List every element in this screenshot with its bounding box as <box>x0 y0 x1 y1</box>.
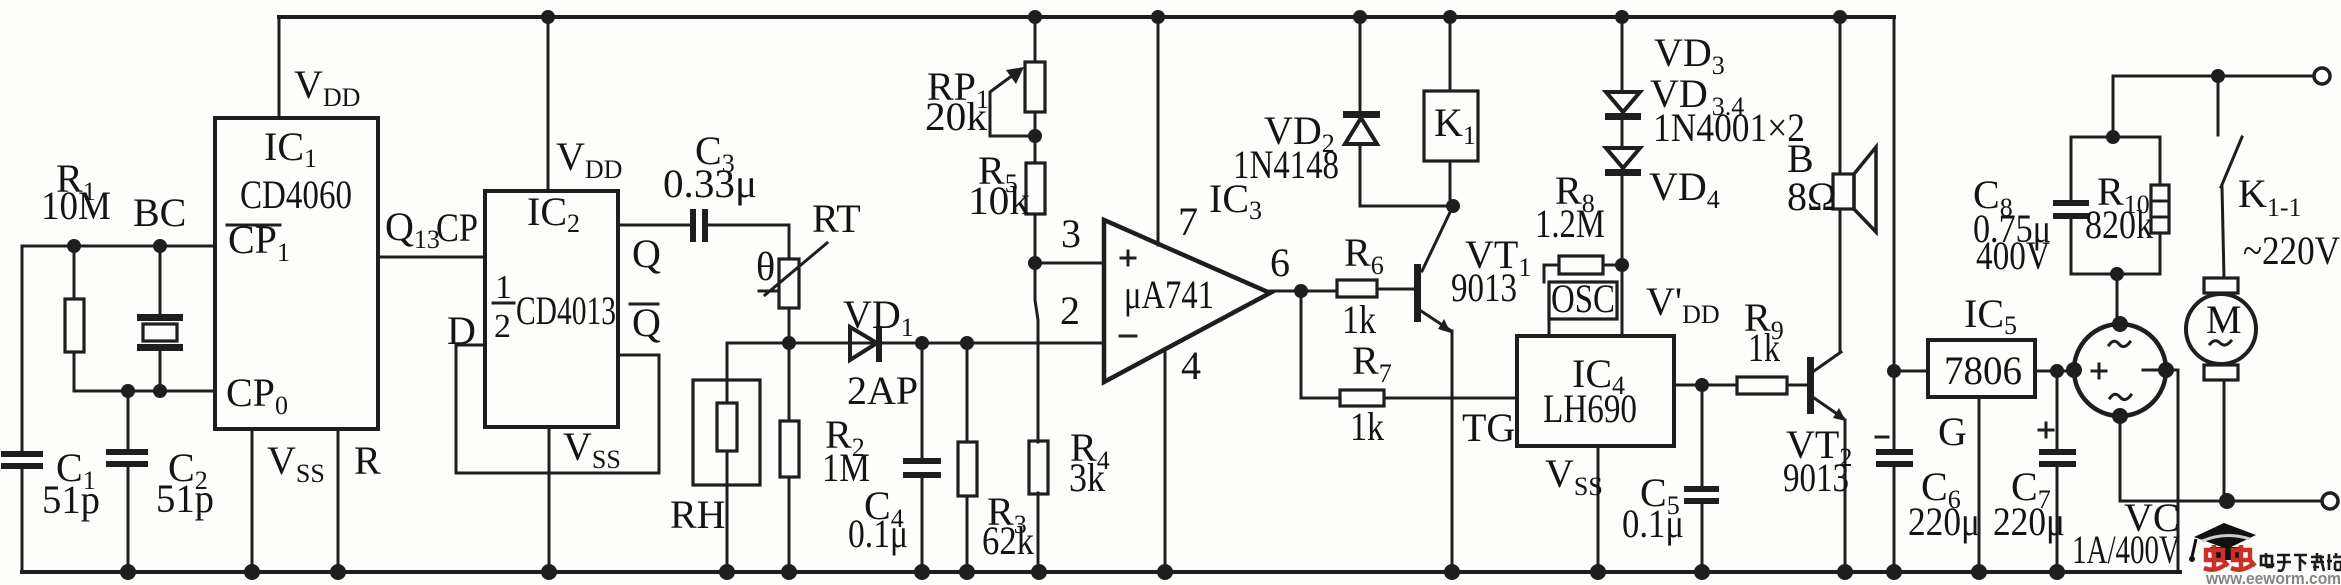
node C4 ground <box>914 564 930 580</box>
node BC top <box>153 239 167 253</box>
node C2 top <box>121 384 135 398</box>
svg-text:TG: TG <box>1462 405 1515 450</box>
label TG <box>1462 405 1515 450</box>
svg-text:9013: 9013 <box>1451 265 1517 310</box>
wire IC4 output <box>1674 384 1702 387</box>
node C7 junction <box>2050 364 2064 378</box>
svg-text:2AP: 2AP <box>847 368 918 413</box>
diode VD3 <box>1605 17 1641 120</box>
label RT <box>812 196 861 241</box>
label VD3.4 1N4001x2 <box>1650 71 1805 150</box>
svg-text:RT: RT <box>812 196 861 241</box>
wire IC1 VDD riser <box>278 17 281 118</box>
label VT1 9013 <box>1451 232 1531 310</box>
diode VD2 1N4148 <box>1343 17 1453 206</box>
voltage regulator IC5 7806 <box>1928 340 2035 397</box>
capacitor C2 <box>106 391 148 572</box>
label pin 2 <box>1060 288 1080 333</box>
label R8 1.2M <box>1535 168 1605 246</box>
wire VDD rail to 7806 input <box>1894 17 1928 371</box>
op-amp U1 uA741 <box>1104 220 1270 382</box>
svg-text:1N4148: 1N4148 <box>1233 142 1339 187</box>
node R3 ground <box>959 564 975 580</box>
label K1-1 <box>2238 171 2302 222</box>
diode VD1 2AP <box>850 326 882 362</box>
node C6 ground <box>1886 564 1902 580</box>
svg-text:20k: 20k <box>925 94 987 139</box>
svg-text:0.33μ: 0.33μ <box>663 161 757 206</box>
wire Q13 to CP of IC2 <box>378 256 485 259</box>
svg-text:OSC: OSC <box>1551 276 1615 321</box>
svg-text:1.2M: 1.2M <box>1535 201 1605 246</box>
label IC5 <box>1964 291 2017 340</box>
svg-text:3: 3 <box>1061 211 1081 256</box>
wire CP1 input row <box>22 246 215 452</box>
node R IC1 ground <box>330 564 346 580</box>
wire AC live top <box>2113 76 2314 137</box>
label R1 10M <box>41 156 111 228</box>
resistor R6 1k <box>1301 280 1415 297</box>
label VDD (IC2) <box>556 134 622 184</box>
pin VSS of IC2 <box>549 424 621 572</box>
node R3 top <box>960 336 974 350</box>
watermark graduation cap logo <box>2189 523 2256 562</box>
capacitor C1 <box>1 451 43 572</box>
svg-text:62k: 62k <box>982 518 1034 563</box>
node RH ground <box>719 564 735 580</box>
transistor VT2 9013 <box>1807 352 1846 572</box>
relay coil K1 <box>1424 17 1478 206</box>
label R9 1k <box>1744 295 1784 370</box>
label Q13 CP <box>385 204 478 254</box>
svg-text:51p: 51p <box>42 477 100 522</box>
capacitor C5 <box>1684 385 1719 572</box>
label R2 1M <box>822 412 870 490</box>
label IC3 <box>1209 176 1262 225</box>
resistor R10 820k <box>2151 137 2169 274</box>
label pin 3 <box>1061 211 1081 256</box>
label B 8ohm <box>1787 136 1837 219</box>
wire inverting input row <box>727 342 1104 345</box>
wire bridge minus to ground rail <box>2166 370 2178 572</box>
pin CP0 of IC1 <box>226 370 288 420</box>
node VD3 rail <box>1615 10 1629 24</box>
node pin7 rail <box>1151 10 1165 24</box>
resistor R3 <box>958 343 977 572</box>
node VSS IC1 ground <box>244 564 260 580</box>
svg-text:10k: 10k <box>968 178 1030 223</box>
label C8 0.75u 400V <box>1973 172 2051 278</box>
watermark url <box>2205 569 2341 585</box>
svg-text:6: 6 <box>1270 240 1290 285</box>
svg-text:Q: Q <box>632 231 661 276</box>
wire VDD top rail <box>279 15 1894 19</box>
label VC 1A/400V <box>2072 495 2180 572</box>
svg-text:0.1μ: 0.1μ <box>848 511 908 556</box>
label D input <box>447 308 476 353</box>
wire IC2 VDD riser <box>547 17 550 191</box>
terminal AC top right <box>2314 68 2330 84</box>
wire loop to bridge <box>2116 274 2119 324</box>
oscillator pin OSC box <box>1549 276 1617 336</box>
motor M <box>2186 278 2256 501</box>
node C2 ground <box>120 564 136 580</box>
node C8 R10 top junction <box>2106 130 2120 144</box>
node K1-1 branch <box>2211 69 2225 83</box>
wire CP0 row <box>74 390 215 393</box>
svg-text:~220V: ~220V <box>2243 228 2340 273</box>
wire Q output to C3 <box>618 224 691 227</box>
wire 7806 output <box>2035 370 2074 373</box>
svg-text:1: 1 <box>495 269 512 306</box>
node VSS IC4 ground <box>1590 564 1606 580</box>
svg-text:RH: RH <box>670 492 726 537</box>
svg-text:1k: 1k <box>1748 325 1780 370</box>
pin 4 of op-amp <box>1165 343 1201 572</box>
capacitor C4 <box>903 343 941 572</box>
humidity sensor RH <box>693 343 760 572</box>
svg-text:400V: 400V <box>1976 233 2050 278</box>
node pin3 junction <box>1028 256 1042 270</box>
pin R of IC1 <box>338 429 381 572</box>
svg-text:2: 2 <box>494 308 511 345</box>
label VD2 1N4148 <box>1233 108 1339 187</box>
svg-text:θ: θ <box>756 244 775 289</box>
resistor R5 10k <box>1026 163 1045 263</box>
IC IC1 CD4060 <box>215 118 378 429</box>
pin G of 7806 <box>1938 397 1979 572</box>
label V'DD <box>1646 279 1720 329</box>
node speaker rail <box>1833 10 1847 24</box>
label C4 0.1u <box>848 483 908 556</box>
IC IC4 LH690 <box>1517 336 1674 446</box>
speaker B 8ohm <box>1833 17 1876 352</box>
svg-text:220μ: 220μ <box>1993 499 2065 544</box>
wire output to R7 <box>1301 291 1340 398</box>
node C7 ground <box>2049 564 2065 580</box>
label R4 3k <box>1069 425 1110 500</box>
label ~220V <box>2243 228 2340 273</box>
capacitor C8 <box>2053 137 2089 274</box>
label C6 220u <box>1908 464 1980 544</box>
wire bridge AC bottom <box>2120 416 2322 501</box>
svg-text:1A/400V: 1A/400V <box>2072 527 2180 572</box>
capacitor C3 <box>690 209 789 242</box>
svg-text:220μ: 220μ <box>1908 499 1980 544</box>
label C3 0.33u <box>663 128 757 206</box>
svg-text:0.1μ: 0.1μ <box>1622 501 1684 546</box>
transistor VT1 9013 <box>1414 206 1453 572</box>
pin VSS of IC4 <box>1545 446 1603 572</box>
pin VSS of IC1 <box>252 429 325 572</box>
watermark site name characters <box>2261 553 2341 571</box>
capacitor C6 (electrolytic) <box>1876 371 1913 572</box>
resistor R8 1.2M <box>1544 256 1622 282</box>
resistor R7 1k <box>1340 390 1517 406</box>
node R8 VDD junction <box>1615 258 1629 272</box>
node K1 rail <box>1443 10 1457 24</box>
switch K1-1 <box>2218 76 2242 278</box>
svg-text:www.eeworm.com: www.eeworm.com <box>2205 569 2341 585</box>
resistor R4 3k <box>1029 263 1048 572</box>
resistor R2 <box>780 343 799 572</box>
node BC bottom <box>153 384 167 398</box>
crystal BC <box>137 246 183 391</box>
label C7 220u <box>1993 464 2065 544</box>
label C1 51p <box>42 445 100 522</box>
svg-text:M: M <box>2206 297 2242 342</box>
svg-text:1k: 1k <box>1342 297 1376 342</box>
label theta <box>756 244 775 289</box>
wire C8 R10 loop <box>2071 137 2160 274</box>
svg-text:2: 2 <box>1060 288 1080 333</box>
wire D to Qbar loop <box>456 345 659 473</box>
node VDD rail IC2 <box>541 10 555 24</box>
capacitor C7 (electrolytic) <box>2039 371 2076 572</box>
node VT1 emitter ground <box>1444 564 1460 580</box>
label Qbar output <box>630 300 661 345</box>
svg-text:9013: 9013 <box>1783 455 1849 500</box>
node C4 top <box>915 336 929 350</box>
svg-text:10M: 10M <box>41 183 111 228</box>
label Q output <box>632 231 661 276</box>
node R2 ground <box>781 564 797 580</box>
wire ground bottom rail <box>22 570 2180 574</box>
node motor bottom junction <box>2219 493 2235 509</box>
wire op-amp output <box>1270 290 1301 293</box>
node RP1 wiper junction <box>1028 129 1042 143</box>
node RT R2 junction <box>782 336 796 350</box>
node bridge top junction <box>2110 267 2124 281</box>
node VT1 collector junction <box>1446 199 1460 213</box>
pin 7 of op-amp <box>1158 17 1198 245</box>
svg-text:1M: 1M <box>822 445 870 490</box>
node C5 ground <box>1694 564 1710 580</box>
svg-text:4: 4 <box>1181 343 1201 388</box>
svg-text:CD4060: CD4060 <box>240 172 352 217</box>
node RP1 rail <box>1028 10 1042 24</box>
node VD2 rail <box>1353 10 1367 24</box>
label VD3 <box>1654 30 1725 80</box>
watermark chongchong character 1 <box>2204 545 2228 570</box>
label BC <box>133 190 186 235</box>
node pin4 ground <box>1157 564 1173 580</box>
svg-text:LH690: LH690 <box>1543 386 1637 431</box>
label VD4 <box>1649 164 1720 214</box>
node VSS IC2 ground <box>541 564 557 580</box>
diode VD4 <box>1605 119 1641 336</box>
IC IC2 1/2 CD4013 <box>485 189 618 427</box>
node R1 top <box>67 239 81 253</box>
label C2 51p <box>156 445 214 521</box>
resistor R1 <box>65 246 84 391</box>
svg-text:R: R <box>354 438 381 483</box>
label VT2 9013 <box>1783 422 1852 500</box>
watermark chongchong character 2 <box>2231 545 2255 570</box>
node IC4 output junction <box>1695 378 1709 392</box>
label VDD (IC1) <box>294 62 360 112</box>
svg-text:51p: 51p <box>156 476 214 521</box>
svg-text:BC: BC <box>133 190 186 235</box>
wire to non-inverting input <box>1035 262 1104 265</box>
label R7 1k <box>1350 338 1392 449</box>
svg-text:7806: 7806 <box>1944 348 2022 393</box>
svg-text:1N4001×2: 1N4001×2 <box>1653 105 1805 150</box>
node R4 ground <box>1031 564 1047 580</box>
thermistor RT <box>759 225 827 343</box>
svg-text:G: G <box>1938 409 1967 454</box>
label 2AP <box>847 368 918 413</box>
label C5 0.1u <box>1622 470 1684 546</box>
node G ground <box>1971 564 1987 580</box>
label R5 10k <box>968 148 1030 223</box>
terminal AC bottom right <box>2322 493 2338 509</box>
node output junction <box>1294 284 1308 298</box>
svg-text:3k: 3k <box>1069 455 1105 500</box>
svg-text:CD4013: CD4013 <box>516 288 616 333</box>
label R10 820k <box>2085 169 2153 247</box>
label VD1 <box>843 292 914 342</box>
svg-text:μA741: μA741 <box>1124 272 1214 317</box>
potentiometer RP1 20k <box>990 17 1045 163</box>
label pin 6 <box>1270 240 1290 285</box>
svg-text:7: 7 <box>1178 199 1198 244</box>
label R6 1k <box>1342 230 1384 342</box>
node 7806 input junction <box>1887 364 1901 378</box>
svg-text:8Ω: 8Ω <box>1787 174 1837 219</box>
label RP1 20k <box>925 64 989 139</box>
svg-text:Q: Q <box>632 300 661 345</box>
svg-text:820k: 820k <box>2085 202 2153 247</box>
resistor R9 1k <box>1702 377 1808 394</box>
pin CP1 (inverted) of IC1 <box>227 217 290 267</box>
svg-text:1k: 1k <box>1350 404 1384 449</box>
label R3 62k <box>982 489 1034 563</box>
node VT2 emitter ground <box>1837 564 1853 580</box>
svg-text:CP: CP <box>436 205 478 250</box>
label RH <box>670 492 726 537</box>
bridge rectifier VC <box>2066 316 2174 424</box>
